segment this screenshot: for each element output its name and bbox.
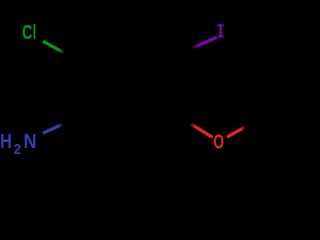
atom O label: [213, 130, 224, 153]
bond N-C1 (blue half): [43, 124, 63, 133]
atom Cl label: [22, 20, 36, 43]
svg-text:2: 2: [14, 141, 21, 157]
svg-text:N: N: [24, 131, 37, 153]
bond C5-O (red half, left): [191, 124, 213, 137]
bond C4-I (purple half): [193, 37, 217, 47]
bond C2-Cl (green half): [43, 41, 64, 52]
atom N label H2N: [0, 129, 36, 157]
svg-text:C: C: [22, 20, 33, 43]
svg-text:H: H: [0, 129, 12, 152]
atom I label (serif capital I): [218, 24, 224, 37]
svg-text:O: O: [213, 130, 224, 153]
benzene ring (carbon bonds, black on black): [84, 41, 168, 139]
svg-text:l: l: [33, 21, 37, 44]
bond O-CH3 (red half, right): [227, 127, 245, 137]
